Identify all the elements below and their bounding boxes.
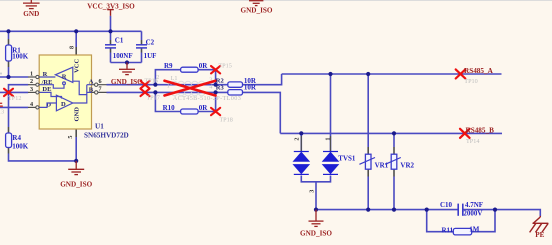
wire pin1 R row xyxy=(0,76,28,78)
varistor VR2 xyxy=(385,154,414,169)
power port VCC_3V3_ISO xyxy=(87,2,135,15)
testpoint TP12 crossed out xyxy=(4,89,21,103)
wire R1 bottom to R net xyxy=(8,61,10,67)
TVS diode array TVS1 xyxy=(293,136,356,193)
wire A horizontal to RS485_A xyxy=(282,73,502,75)
U1 pin stubs left with pin ends xyxy=(28,70,39,109)
U1 receiver triangle xyxy=(39,67,73,82)
wire R9 bypass row xyxy=(155,70,215,85)
svg-text:100NF: 100NF xyxy=(113,52,133,60)
wire C1-C2 ground link xyxy=(111,62,142,64)
wire VR2 from B xyxy=(393,133,395,147)
wire pin8 VCC xyxy=(75,31,77,47)
ground GND_ISO under TVS xyxy=(300,210,332,238)
capacitor C1 xyxy=(105,37,133,60)
svg-text:8: 8 xyxy=(68,46,75,49)
svg-text:RS485_B: RS485_B xyxy=(466,127,495,135)
svg-text:1M: 1M xyxy=(469,225,480,233)
net label fragment left edge D row xyxy=(0,103,3,107)
wire B horizontal to RS485_B xyxy=(280,132,502,134)
wire R11 branch xyxy=(427,210,495,232)
svg-text:TP14: TP14 xyxy=(466,138,479,145)
testpoint TP18 crossed out xyxy=(211,108,233,124)
wire TVS1 bottom link xyxy=(301,176,330,182)
svg-text:13: 13 xyxy=(0,108,4,115)
svg-text:C2: C2 xyxy=(146,39,155,47)
wire TVS1 pin3 to ground rail xyxy=(315,182,317,210)
svg-text:TP16: TP16 xyxy=(144,78,157,85)
ground GND_ISO top xyxy=(241,1,273,15)
wire TVS1 pin2 from B xyxy=(300,133,302,151)
svg-text:R4: R4 xyxy=(12,134,21,142)
testpoint TP16 crossed out xyxy=(141,78,158,89)
U1 pin stubs right pins 6 7 xyxy=(92,78,107,94)
wire DE row xyxy=(0,91,28,93)
wire B from pin to R3 xyxy=(107,91,228,93)
svg-text:TP18: TP18 xyxy=(219,117,232,124)
svg-text:D: D xyxy=(61,101,66,108)
svg-text:R11: R11 xyxy=(442,227,454,235)
svg-text:VR1: VR1 xyxy=(375,162,389,170)
U1 driver triangle xyxy=(39,95,73,111)
svg-text:1: 1 xyxy=(167,83,170,90)
svg-text:GND_ISO: GND_ISO xyxy=(111,78,143,86)
wire VCC_3V3_ISO drop to rail xyxy=(110,16,112,31)
wire VR1 bottom xyxy=(367,169,369,176)
svg-text:C10: C10 xyxy=(440,201,453,209)
svg-text:0R: 0R xyxy=(199,62,209,70)
svg-text:10R: 10R xyxy=(244,84,257,92)
varistor VR1 xyxy=(359,154,388,169)
resistor R4 xyxy=(6,133,29,151)
resistor R2 xyxy=(216,77,257,87)
svg-text:4.7NF: 4.7NF xyxy=(465,201,483,209)
resistor R1 xyxy=(6,45,29,61)
resistor R9 xyxy=(164,62,208,72)
testpoint TP11 label fragment left edge xyxy=(0,73,2,75)
svg-text:TP12: TP12 xyxy=(8,95,21,102)
U1 internal wiring xyxy=(39,81,91,103)
wire pin5 GND xyxy=(75,129,77,137)
svg-text:SN65HVD72D: SN65HVD72D xyxy=(84,131,129,139)
testpoint TP17 crossed out xyxy=(141,89,160,102)
svg-text:2000V: 2000V xyxy=(463,209,482,217)
ground PE protective earth xyxy=(530,216,549,239)
wire VR1 from A xyxy=(367,74,369,147)
wire R1 top xyxy=(8,31,10,39)
resistor R10 xyxy=(163,104,209,114)
svg-text:2: 2 xyxy=(30,78,33,85)
resistor R11 xyxy=(442,225,480,235)
wire VCC top rail xyxy=(0,30,142,32)
wire B after R3 to corner xyxy=(243,92,281,133)
resistor R3 xyxy=(216,84,257,95)
wire DE to R4 xyxy=(8,92,10,127)
svg-text:ACT45B-510-2P-TL003: ACT45B-510-2P-TL003 xyxy=(173,95,241,102)
svg-text:1: 1 xyxy=(325,138,332,141)
net label RS485_A with testpoint TP10 crossed out xyxy=(456,67,494,85)
svg-text:100K: 100K xyxy=(12,143,29,151)
testpoint TP15 crossed out xyxy=(211,62,232,73)
wire isolated ground rail xyxy=(316,209,458,211)
wire A after R2 to corner xyxy=(243,74,282,85)
svg-text:TP15: TP15 xyxy=(218,62,231,69)
wire VR2 bottom xyxy=(393,169,395,176)
op-amp U1 body SN65HVD72D xyxy=(39,55,129,139)
svg-text:4: 4 xyxy=(209,83,212,90)
wire C2 bottom xyxy=(141,48,143,52)
ground GND_ISO under C1 C2 xyxy=(111,63,143,87)
ground GND top-left xyxy=(23,0,40,18)
svg-text:R10: R10 xyxy=(163,104,176,112)
wire A from pin to R2 xyxy=(107,84,228,86)
svg-text:GND_ISO: GND_ISO xyxy=(60,180,92,188)
svg-text:3: 3 xyxy=(309,190,316,193)
svg-text:U1: U1 xyxy=(95,123,104,131)
svg-text:R3: R3 xyxy=(216,84,225,91)
wire C1 bottom xyxy=(110,48,112,52)
svg-text:GND_ISO: GND_ISO xyxy=(241,6,273,14)
svg-text:5: 5 xyxy=(67,136,74,139)
L1 not-fitted cross xyxy=(165,81,216,96)
svg-text:VR2: VR2 xyxy=(400,162,414,170)
svg-text:GND: GND xyxy=(23,10,39,18)
svg-text:100K: 100K xyxy=(12,53,29,61)
svg-text:GND: GND xyxy=(74,107,81,122)
wire D row xyxy=(0,106,28,108)
wire C1 top xyxy=(110,31,112,40)
svg-text:R9: R9 xyxy=(164,62,173,70)
svg-text:VCC_3V3_ISO: VCC_3V3_ISO xyxy=(87,2,135,10)
wire R4 bottom to ground rail xyxy=(8,148,10,154)
wire C2 top xyxy=(141,31,143,40)
svg-text:RS485_A: RS485_A xyxy=(464,67,494,75)
capacitor C10 xyxy=(440,201,483,217)
svg-text:3: 3 xyxy=(30,86,33,93)
capacitor C2 xyxy=(136,39,156,60)
svg-text:TP10: TP10 xyxy=(464,78,477,85)
ground GND_ISO under U1 xyxy=(60,161,92,189)
svg-text:2: 2 xyxy=(293,138,300,141)
svg-text:7: 7 xyxy=(99,86,102,93)
svg-text:GND_ISO: GND_ISO xyxy=(300,230,332,238)
svg-text:VCC: VCC xyxy=(74,59,81,73)
wire R10 bypass row xyxy=(155,92,215,111)
svg-text:1UF: 1UF xyxy=(144,52,157,60)
svg-text:C1: C1 xyxy=(115,37,124,45)
svg-text:R: R xyxy=(62,74,67,81)
svg-text:0R: 0R xyxy=(199,104,209,112)
wire after C10 to PE corner xyxy=(463,210,540,217)
net label RS485_B with testpoint TP14 crossed out xyxy=(460,127,494,145)
svg-text:1: 1 xyxy=(30,70,33,77)
svg-text:PE: PE xyxy=(535,231,544,239)
wire /RE elbow xyxy=(9,85,29,93)
svg-text:6: 6 xyxy=(99,78,102,85)
inductor L1 ghost common-mode choke xyxy=(156,74,241,102)
svg-text:TP17: TP17 xyxy=(146,95,159,102)
wire TVS1 pin1 from A xyxy=(330,74,332,151)
svg-text:4: 4 xyxy=(30,101,33,108)
svg-text:TVS1: TVS1 xyxy=(338,154,356,162)
